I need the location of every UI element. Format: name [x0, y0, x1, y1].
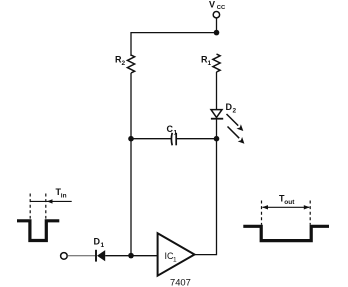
- output waveform Tout pulse: [243, 226, 329, 240]
- svg-text:1: 1: [101, 242, 105, 249]
- wire top rail: [131, 32, 217, 34]
- junction node B (C1 left): [128, 136, 134, 142]
- capacitor C1: [167, 124, 178, 145]
- wire Vcc to top rail: [216, 18, 218, 33]
- svg-text:7407: 7407: [170, 277, 191, 287]
- input waveform Tin pulse: [17, 221, 59, 241]
- wire D1 to IC1 input: [105, 255, 157, 257]
- svg-text:in: in: [61, 193, 67, 200]
- label Tout: [279, 194, 295, 207]
- wire D2 to node C: [216, 119, 218, 139]
- svg-text:D: D: [226, 102, 233, 112]
- resistor R2: [115, 55, 135, 74]
- label Tin: [56, 187, 67, 200]
- svg-text:1: 1: [174, 130, 178, 137]
- output waveform Tout dashed markers: [262, 201, 311, 225]
- wire top rail to R2: [130, 32, 132, 56]
- wire input terminal to D1: [67, 255, 95, 257]
- svg-text:D: D: [94, 237, 101, 247]
- svg-text:1: 1: [173, 257, 177, 264]
- wire node B down to node A: [130, 139, 132, 256]
- input terminal: [61, 253, 68, 260]
- junction top rail / R1: [214, 30, 220, 36]
- input waveform Tin dashed markers: [30, 194, 46, 219]
- LED D2: [211, 102, 237, 119]
- wire node C down to output corner: [195, 139, 217, 255]
- svg-text:CC: CC: [217, 5, 226, 11]
- Vcc terminal: [213, 12, 219, 18]
- svg-text:C: C: [167, 124, 174, 134]
- output waveform Tout dimension arrows: [262, 205, 310, 209]
- junction node C (C1 right): [214, 136, 220, 142]
- wire C1 to node C: [176, 138, 216, 140]
- wire node B to C1: [131, 138, 172, 140]
- input waveform Tin dimension arrow: [30, 199, 71, 203]
- svg-text:V: V: [209, 0, 215, 9]
- svg-text:1: 1: [208, 60, 212, 67]
- svg-text:out: out: [284, 199, 295, 206]
- buffer IC1 (7407): [158, 233, 195, 276]
- LED D2 light arrows: [227, 114, 245, 144]
- svg-text:2: 2: [233, 108, 237, 115]
- wire R2 to node B: [130, 73, 132, 139]
- resistor R1: [201, 54, 220, 72]
- diode D1: [94, 237, 106, 262]
- wire R1 to D2: [216, 72, 218, 109]
- node Vcc label: [209, 0, 226, 11]
- svg-text:2: 2: [122, 60, 126, 67]
- junction node A: [128, 253, 134, 259]
